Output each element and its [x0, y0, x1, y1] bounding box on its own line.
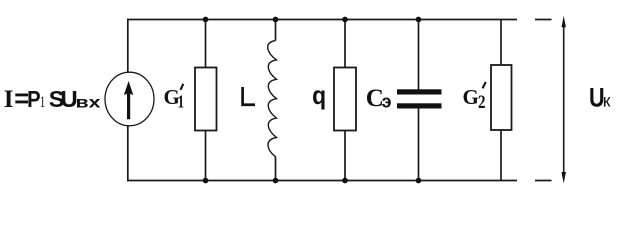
capacitor C plate top [397, 89, 442, 94]
wire q branch bottom [344, 130, 346, 181]
svg-text:1: 1 [40, 94, 46, 111]
voltage arrow Uk head top [562, 16, 566, 27]
wire source branch bottom [127, 125, 129, 181]
component q body [334, 68, 356, 131]
svg-text:вх: вх [76, 95, 101, 112]
wire bottom dash [535, 180, 552, 182]
svg-text:G: G [463, 85, 479, 109]
node L top [273, 17, 279, 23]
label Uk [589, 83, 611, 113]
svg-text:2: 2 [478, 92, 486, 113]
wire G1 branch top [205, 20, 207, 69]
wire source branch top [127, 19, 129, 73]
node C bottom [416, 178, 422, 184]
inductor L coil [268, 41, 277, 157]
node C top [416, 17, 422, 23]
svg-text:q: q [312, 80, 326, 110]
label I=P1SUvx [4, 86, 101, 114]
current source I arrow [124, 81, 133, 119]
wire G1 branch bottom [205, 130, 207, 181]
wire top dash [535, 19, 552, 21]
wire G2 branch bottom [500, 130, 502, 181]
node G1 top [203, 17, 209, 23]
wire L branch bottom [275, 157, 277, 181]
wire bottom rail [127, 180, 517, 182]
svg-text:1: 1 [178, 92, 185, 112]
wire C branch top [418, 20, 420, 90]
node q bottom [342, 178, 348, 184]
node G1 bottom [203, 178, 209, 184]
wire q branch top [344, 20, 346, 69]
node q top [342, 17, 348, 23]
svg-text:I: I [4, 86, 14, 113]
wire G2 branch top [500, 20, 502, 66]
wire top rail [127, 19, 517, 21]
capacitor C plate bottom [397, 103, 442, 108]
svg-text:к: к [603, 91, 611, 111]
label L [243, 87, 255, 105]
conductance G2' body [491, 65, 512, 130]
wire C branch bottom [418, 108, 420, 181]
label G1' [164, 84, 185, 112]
label G2' [463, 82, 486, 113]
current source I circle [105, 72, 154, 126]
node L bottom [273, 178, 279, 184]
svg-text:э: э [382, 92, 392, 112]
voltage arrow Uk head bottom [562, 172, 566, 184]
svg-text:P: P [27, 86, 40, 112]
voltage arrow Uk line [563, 27, 565, 173]
conductance G1' body [195, 68, 217, 131]
label C_e [366, 85, 392, 112]
wire L branch top [275, 20, 277, 41]
label q [312, 80, 326, 110]
